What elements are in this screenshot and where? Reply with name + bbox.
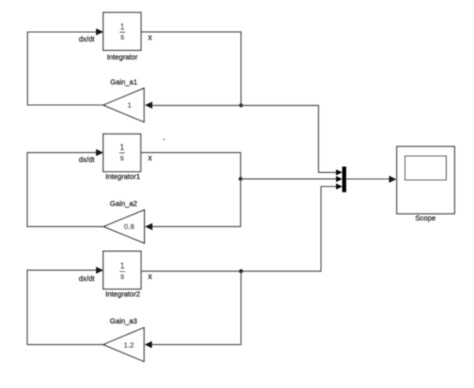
svg-text:dx/dt: dx/dt	[79, 35, 95, 44]
integrator U2 label	[105, 172, 140, 181]
gain Gain_a1 label	[110, 77, 137, 86]
svg-text:1: 1	[120, 143, 124, 152]
svg-text:x: x	[148, 154, 152, 163]
stray mark	[163, 138, 165, 140]
node junction J3	[239, 269, 243, 273]
svg-text:Gain_a1: Gain_a1	[110, 77, 137, 86]
wire loop1 feedback (Gain_a1 out -> Integrator in)	[28, 28, 104, 105]
wire mux output -> Scope input	[346, 176, 396, 183]
svg-text:s: s	[120, 272, 124, 281]
gain Gain_a2	[104, 210, 145, 243]
gain Gain_a2 label	[110, 199, 137, 208]
wire junction J1 -> mux input1	[241, 105, 342, 175]
svg-text:Integrator1: Integrator1	[105, 172, 140, 181]
gain Gain_a3	[103, 328, 144, 362]
scope SC1 label	[415, 213, 435, 222]
wire loop2 output (Integrator1 out -> junction J2)	[141, 153, 241, 179]
svg-text:1: 1	[120, 22, 124, 31]
wire junction J2 -> Gain_a2 input	[145, 179, 241, 230]
svg-text:Scope: Scope	[415, 213, 435, 222]
svg-text:dx/dt: dx/dt	[79, 274, 95, 283]
mux M1	[342, 167, 346, 193]
node junction J2	[239, 177, 243, 181]
svg-text:0.8: 0.8	[124, 222, 134, 231]
node x label (loop2)	[148, 154, 152, 163]
svg-text:x: x	[148, 33, 152, 42]
svg-text:Gain_a2: Gain_a2	[110, 199, 137, 208]
node x label (loop1)	[148, 33, 152, 42]
node x label (loop3)	[148, 272, 152, 281]
wire loop3 feedback (Gain_a3 out -> Integrator2 in)	[27, 267, 103, 345]
scope SC1	[397, 147, 455, 214]
wire loop1 output (Integrator out -> junction)	[141, 32, 241, 106]
svg-text:s: s	[120, 153, 124, 162]
gain Gain_a3 label	[110, 316, 137, 325]
gain Gain_a1	[103, 88, 144, 122]
integrator U1	[103, 13, 141, 51]
svg-text:Integrator: Integrator	[107, 52, 138, 61]
node dx/dt label (loop1)	[79, 35, 95, 44]
integrator U2 (Integrator1)	[103, 134, 141, 172]
svg-text:1: 1	[127, 100, 131, 109]
wire loop2 feedback (Gain_a2 out -> Integrator1 in)	[27, 149, 103, 227]
svg-text:Integrator2: Integrator2	[105, 290, 140, 299]
svg-text:Gain_a3: Gain_a3	[110, 316, 137, 325]
svg-text:x: x	[148, 272, 152, 281]
node dx/dt label (loop2)	[79, 155, 95, 164]
wire loop3 output (Integrator2 out -> mux input3)	[141, 184, 342, 272]
integrator U3 label	[105, 290, 140, 299]
node junction J1	[239, 104, 243, 108]
wire junction J1 -> Gain_a1 input	[145, 102, 241, 109]
svg-text:1: 1	[120, 262, 124, 271]
svg-text:dx/dt: dx/dt	[79, 155, 95, 164]
node dx/dt label (loop3)	[79, 274, 95, 283]
wire junction J3 -> Gain_a3 input	[145, 271, 242, 348]
svg-text:1.2: 1.2	[124, 340, 134, 349]
integrator U3 (Integrator2)	[103, 251, 141, 289]
wire junction J2 -> mux input2	[241, 176, 343, 182]
svg-text:s: s	[120, 33, 124, 42]
integrator U1 label	[107, 52, 138, 61]
